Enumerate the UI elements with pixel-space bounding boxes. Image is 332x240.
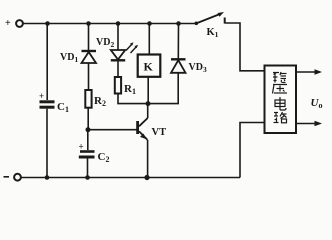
node top rail / VD3 branch [176,21,181,26]
switch K1 [195,12,225,25]
wire switch to regulator top input [225,23,265,71]
label regulator char 路 [274,112,287,123]
wire C2 lower lead [87,159,89,178]
label regulator char 压 [273,85,288,94]
node top rail / VD2 branch [116,21,121,26]
node top rail / VD1 branch [86,21,91,26]
capacitor C2 [79,142,95,158]
LED arrows of VD2 [126,42,138,53]
wire left rail lower (C1 to bottom rail) [46,109,48,178]
svg-text:VT: VT [152,127,167,138]
node bottom rail / emitter [144,175,149,180]
wire left rail upper (top rail to C1) [46,24,48,101]
svg-text:K: K [144,60,154,74]
node bottom rail / C2 [85,175,90,180]
diode VD2 (LED) [111,24,125,78]
node base / C2 junction [86,127,91,132]
transistor VT [138,104,148,178]
wire R2 to base node [87,108,89,130]
node bottom rail / C1 [45,175,50,180]
diode VD3 [148,24,186,104]
relay K [138,24,161,104]
regulator box (voltage regulator circuit) [265,66,297,134]
resistor R2 [85,90,91,108]
wire bottom rail [21,177,240,179]
resistor R1 [115,77,121,94]
wire R1 bottom lead [118,94,148,104]
wire base (junction to VT base) [88,129,138,131]
diode VD1 [82,24,97,91]
svg-text:+: + [79,142,84,152]
terminal - (negative input) [4,174,21,181]
capacitor C1 [39,91,55,107]
label regulator char 电 [275,97,286,110]
wire C2 upper lead [87,130,89,150]
node top rail / C1 branch [45,21,50,26]
node top rail / relay K branch [147,21,152,26]
wire output top with arrow [296,69,322,74]
svg-text:+: + [5,18,11,29]
wire output bottom with arrow [296,121,322,126]
wire regulator bottom input [240,123,265,178]
terminal + (positive input) [5,18,23,29]
label regulator char 稳 [273,72,287,83]
svg-text:+: + [39,91,44,101]
node collector junction [146,101,151,106]
wire top rail [23,23,196,25]
